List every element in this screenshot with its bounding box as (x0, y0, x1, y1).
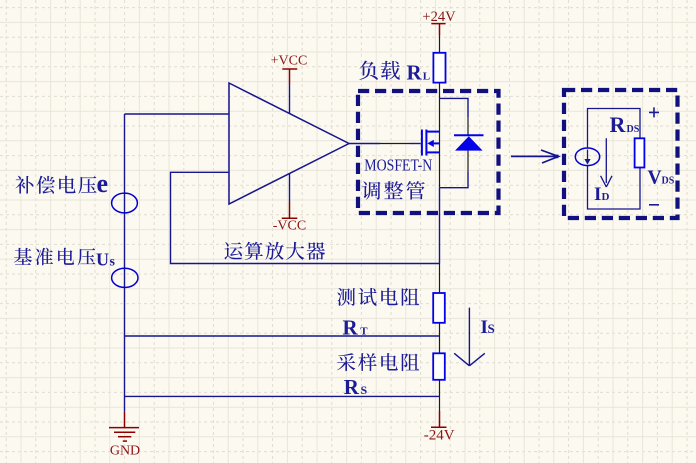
diode body (zener) (454, 134, 484, 136)
wire source down to feedback node (439, 188, 441, 264)
wire top input horizontal (125, 113, 230, 115)
wire RL to drain (439, 83, 441, 132)
minus terminal (649, 204, 659, 206)
svg-text:D: D (602, 191, 610, 203)
current ID arrow (601, 138, 612, 187)
svg-text:DS: DS (662, 176, 675, 187)
wire RT to node (439, 323, 441, 354)
dashed box equivalent model on right (564, 90, 678, 218)
svg-text:V: V (648, 168, 662, 189)
wire inverting input feedback (171, 172, 440, 263)
current Is arrow (454, 308, 485, 366)
svg-text:R: R (407, 61, 423, 85)
svg-text:+24V: +24V (422, 9, 456, 25)
power -24V (431, 411, 447, 427)
wire horizontal RS bottom node (125, 395, 440, 397)
arrow pointing to model box (511, 150, 559, 163)
wire drain-source internal (439, 132, 441, 188)
power -VCC (289, 174, 291, 202)
svg-text:+VCC: +VCC (271, 54, 308, 69)
op-amp triangle (229, 83, 349, 204)
svg-text:R: R (344, 375, 360, 399)
wire drain to diode (440, 98, 469, 117)
wire op-amp output to gate (349, 143, 380, 145)
svg-text:U: U (96, 249, 109, 269)
svg-text:DS: DS (627, 124, 640, 135)
svg-text:MOSFET-N: MOSFET-N (364, 156, 432, 175)
resistor RT (433, 293, 445, 323)
plus terminal (649, 107, 659, 117)
wire horizontal RT-RS node (125, 335, 440, 337)
wire RS bottom (439, 380, 441, 411)
dashed box around MOSFET (regulator tube) (358, 91, 499, 213)
voltage source circle Us (112, 268, 138, 287)
svg-text:L: L (423, 71, 430, 83)
wire left vertical column (124, 114, 126, 412)
resistor RS (433, 353, 445, 380)
voltage source circle e (112, 193, 138, 213)
svg-text:s: s (110, 254, 116, 269)
svg-text:GND: GND (110, 444, 140, 459)
resistor RDS (635, 138, 645, 167)
wire inner rect of model (588, 109, 641, 210)
wire diode to source (467, 151, 469, 172)
svg-text:R: R (610, 112, 627, 137)
svg-text:-VCC: -VCC (273, 219, 306, 234)
wire +24V to RL (439, 36, 441, 53)
svg-text:-24V: -24V (424, 427, 455, 443)
resistor RL (433, 53, 445, 83)
svg-text:e: e (97, 169, 109, 198)
transistor MOSFET-N (422, 130, 440, 156)
wire node to RT (439, 264, 441, 294)
svg-text:I: I (594, 184, 601, 205)
svg-text:S: S (361, 383, 368, 397)
current source ID symbol (575, 148, 599, 166)
svg-text:S: S (488, 321, 495, 336)
ground GND (109, 412, 139, 441)
